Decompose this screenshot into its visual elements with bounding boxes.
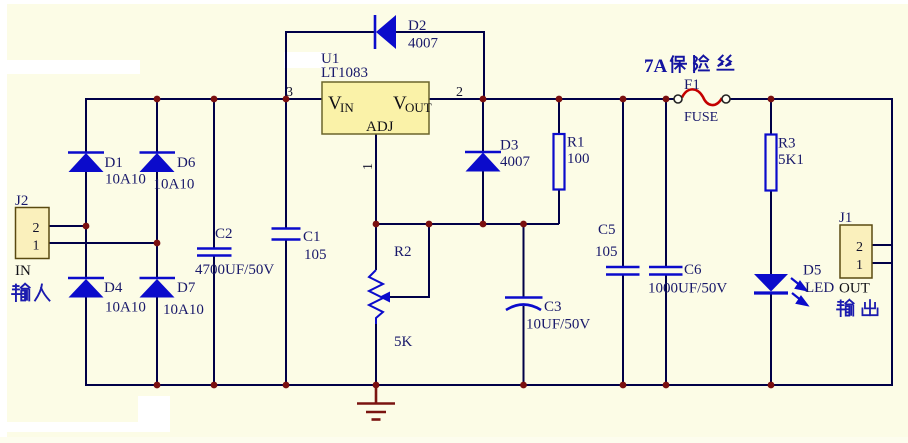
svg-text:FUSE: FUSE bbox=[684, 110, 718, 125]
svg-text:D7: D7 bbox=[177, 280, 196, 296]
svg-text:C1: C1 bbox=[303, 229, 321, 245]
svg-text:10A10: 10A10 bbox=[154, 177, 195, 193]
svg-text:1: 1 bbox=[856, 258, 863, 273]
svg-text:IN: IN bbox=[340, 100, 354, 115]
svg-text:D1: D1 bbox=[105, 155, 123, 171]
svg-text:105: 105 bbox=[595, 244, 618, 260]
svg-text:1000UF/50V: 1000UF/50V bbox=[648, 281, 727, 297]
svg-text:D5: D5 bbox=[803, 263, 821, 279]
svg-text:4007: 4007 bbox=[408, 36, 439, 52]
svg-text:100: 100 bbox=[567, 151, 590, 167]
svg-text:D2: D2 bbox=[408, 18, 426, 34]
svg-text:10A10: 10A10 bbox=[163, 302, 204, 318]
svg-text:R3: R3 bbox=[778, 136, 796, 152]
svg-text:D4: D4 bbox=[104, 280, 123, 296]
svg-text:105: 105 bbox=[304, 247, 327, 263]
svg-text:C5: C5 bbox=[598, 222, 616, 238]
svg-text:J2: J2 bbox=[15, 193, 28, 209]
svg-text:10UF/50V: 10UF/50V bbox=[526, 317, 590, 333]
svg-text:5K1: 5K1 bbox=[778, 152, 804, 168]
svg-text:LED: LED bbox=[805, 280, 834, 296]
svg-text:5K: 5K bbox=[394, 334, 413, 350]
svg-text:10A10: 10A10 bbox=[105, 300, 146, 316]
svg-text:C3: C3 bbox=[544, 299, 562, 315]
svg-text:1: 1 bbox=[33, 239, 40, 254]
svg-text:D3: D3 bbox=[500, 138, 518, 154]
svg-text:10A10: 10A10 bbox=[105, 172, 146, 188]
svg-text:LT1083: LT1083 bbox=[321, 65, 368, 81]
svg-text:C6: C6 bbox=[684, 262, 702, 278]
svg-text:2: 2 bbox=[33, 221, 40, 236]
svg-text:3: 3 bbox=[286, 85, 293, 100]
svg-text:D6: D6 bbox=[177, 155, 196, 171]
svg-text:ADJ: ADJ bbox=[366, 119, 394, 135]
svg-text:4007: 4007 bbox=[500, 154, 531, 170]
svg-text:C2: C2 bbox=[215, 226, 233, 242]
svg-text:F1: F1 bbox=[684, 77, 700, 93]
svg-text:R2: R2 bbox=[394, 244, 412, 260]
svg-text:OUT: OUT bbox=[405, 100, 432, 115]
svg-text:2: 2 bbox=[856, 240, 863, 255]
svg-text:4700UF/50V: 4700UF/50V bbox=[195, 262, 274, 278]
svg-text:7A: 7A bbox=[644, 56, 668, 77]
svg-text:OUT: OUT bbox=[839, 281, 870, 297]
svg-text:2: 2 bbox=[456, 85, 463, 100]
svg-text:R1: R1 bbox=[567, 135, 585, 151]
svg-text:J1: J1 bbox=[839, 210, 852, 226]
svg-text:IN: IN bbox=[15, 263, 31, 279]
svg-text:1: 1 bbox=[361, 163, 376, 170]
